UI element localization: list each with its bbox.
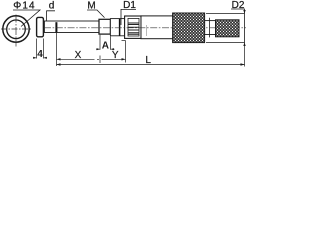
dimension 4 extension lines [37, 39, 44, 59]
ratchet knob knurled [216, 20, 240, 37]
X-Y dimension line [57, 58, 126, 60]
dimension A extension lines [100, 35, 111, 50]
neck groove [209, 18, 211, 38]
svg-text:Y: Y [112, 50, 119, 61]
collar (A section) [99, 19, 110, 34]
X-Y arrowheads [57, 58, 61, 60]
clamp nut groove lines [128, 23, 139, 34]
D2 leader and extension lines [231, 9, 245, 43]
spindle [44, 21, 99, 33]
dimension X-Y extension lines [57, 33, 126, 66]
front view horizontal centerline [1, 28, 32, 30]
thread section [110, 19, 124, 36]
clamp nut inner block [128, 18, 139, 36]
thread relief dark line [119, 19, 121, 36]
flange plate [37, 17, 44, 36]
front view inner circle [7, 20, 26, 39]
dimension A arrows [96, 48, 115, 50]
L arrowheads [57, 63, 61, 65]
front view vertical centerline [15, 15, 17, 47]
Phi14 leader [13, 10, 40, 27]
dimension 4 arrows [33, 57, 47, 59]
svg-text:L: L [145, 55, 151, 66]
D2 arrowheads [243, 10, 245, 14]
d leader [47, 11, 55, 21]
svg-text:4: 4 [37, 49, 43, 60]
main axis centerline [44, 27, 246, 29]
thimble knurled [173, 13, 205, 43]
L dimension line [57, 64, 245, 66]
svg-text:d: d [49, 1, 55, 12]
sleeve barrel [141, 16, 174, 39]
D1 leader [121, 9, 136, 25]
clamp nut body [125, 16, 141, 38]
svg-text:A: A [102, 41, 109, 52]
sleeve graduation line [146, 25, 148, 36]
spindle face bold mark [55, 22, 57, 32]
front view outer circle [3, 16, 29, 42]
nut corner stub [122, 40, 126, 42]
neck [205, 21, 216, 35]
M leader [87, 10, 105, 18]
L right extension line [244, 43, 246, 67]
svg-text:X: X [75, 50, 82, 61]
